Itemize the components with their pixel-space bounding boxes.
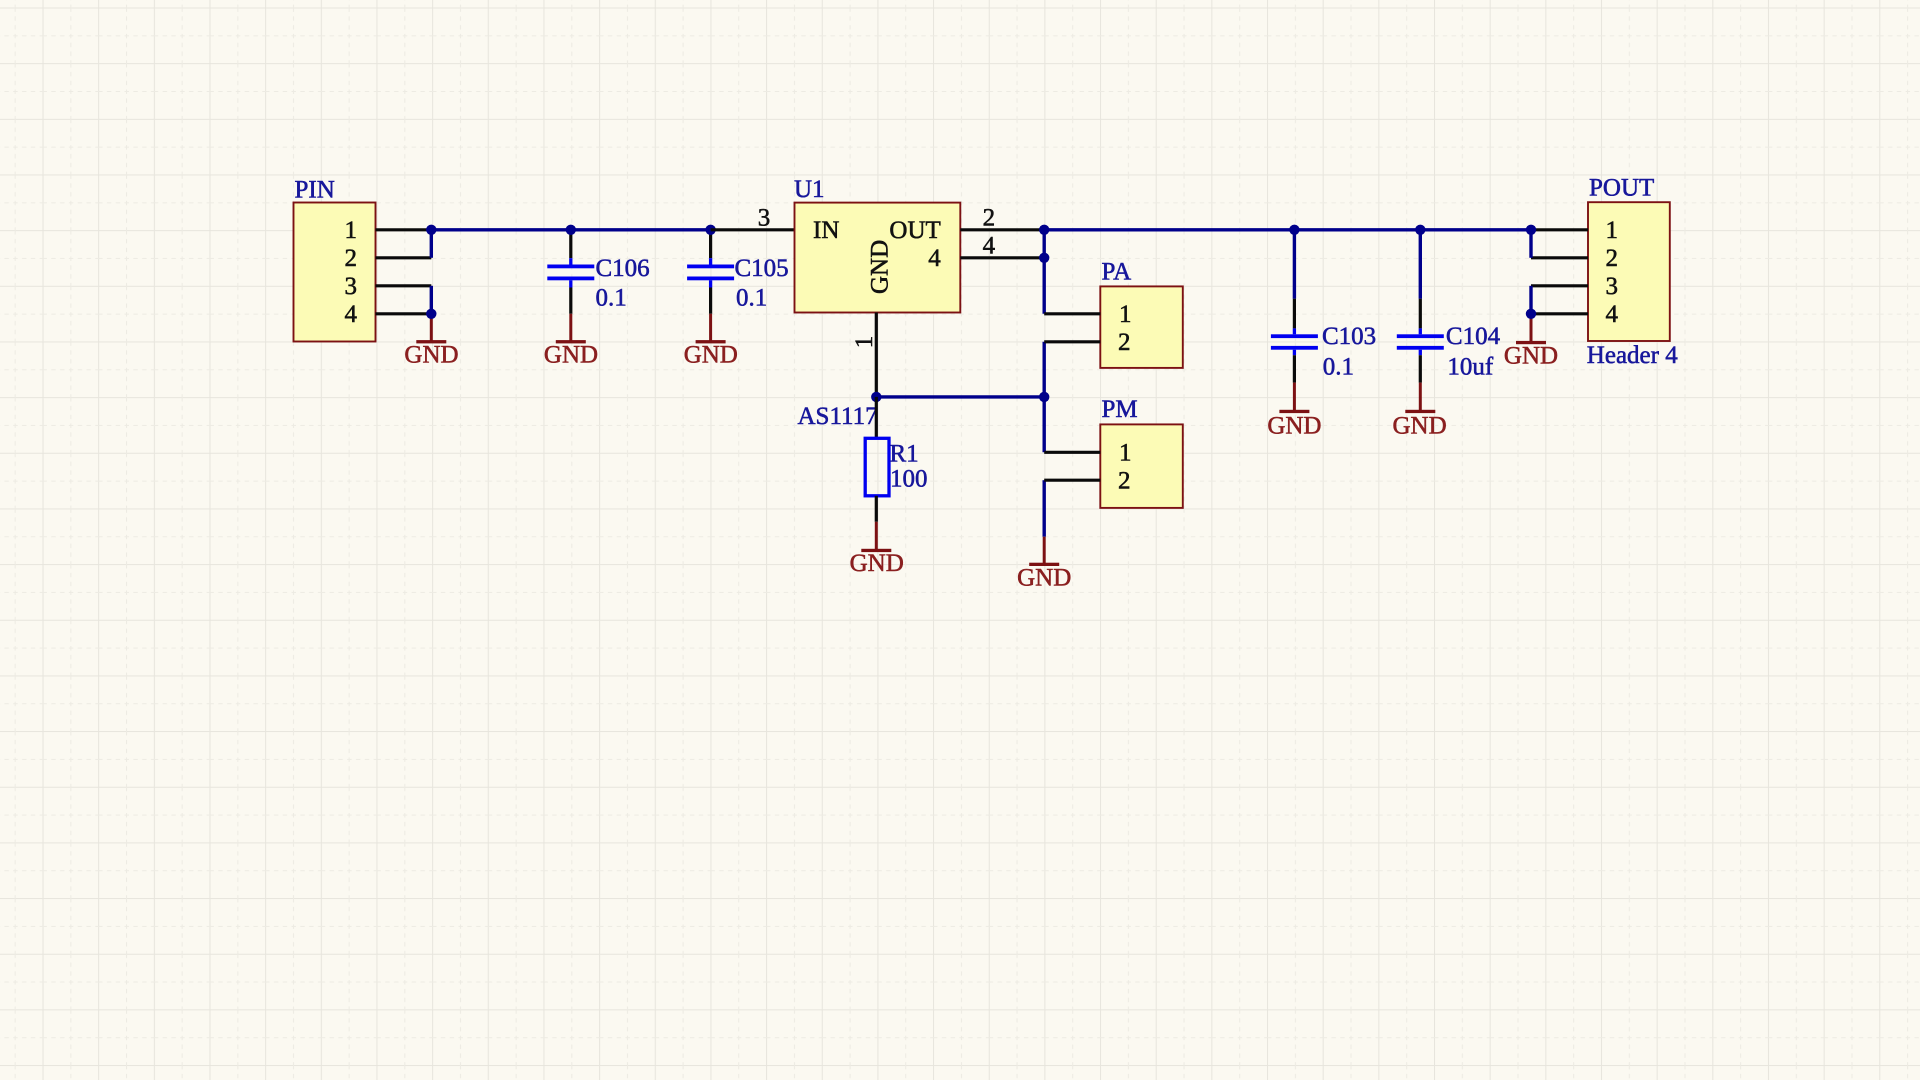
PIN pin 1 wire (376, 228, 432, 231)
junction at U1 pin 2 (1039, 225, 1049, 235)
svg-text:C103: C103 (1322, 323, 1376, 350)
svg-text:4: 4 (345, 301, 358, 328)
svg-text:1: 1 (1606, 217, 1619, 244)
POUT pin 1 wire (1531, 228, 1588, 231)
svg-text:GND: GND (684, 342, 738, 369)
svg-text:1: 1 (345, 217, 358, 244)
junction at PA column ADJ (1039, 392, 1049, 402)
svg-text:C105: C105 (735, 255, 789, 282)
capacitor C105 (687, 232, 734, 314)
regulator U1 (795, 203, 961, 313)
svg-text:POUT: POUT (1589, 175, 1654, 202)
ground symbol under PIN (416, 314, 446, 344)
svg-text:U1: U1 (794, 176, 825, 203)
svg-text:0.1: 0.1 (736, 285, 767, 312)
ground symbol under C106 (556, 314, 586, 344)
U1 pin 1 wire GND/ADJ (875, 313, 878, 397)
wire main net right section (1044, 228, 1531, 231)
svg-text:2: 2 (983, 204, 996, 231)
svg-text:2: 2 (1606, 245, 1619, 272)
svg-text:Header 4: Header 4 (1587, 342, 1678, 369)
svg-text:R1: R1 (890, 440, 919, 467)
svg-text:GND: GND (404, 342, 458, 369)
junction at PIN pin 1 (426, 225, 436, 235)
junction at C105 (705, 225, 715, 235)
svg-text:PM: PM (1102, 396, 1138, 423)
svg-text:GND: GND (1017, 564, 1071, 591)
junction at PIN pin 4 (426, 309, 436, 319)
svg-text:GND: GND (544, 342, 598, 369)
wire POUT pins 1-2 (1529, 230, 1532, 258)
connector PA (1100, 286, 1183, 368)
junction at C103 (1289, 225, 1299, 235)
connector PM (1100, 424, 1183, 508)
svg-text:PA: PA (1102, 258, 1132, 285)
svg-text:GND: GND (1504, 343, 1558, 370)
svg-text:3: 3 (1606, 273, 1619, 300)
svg-text:10uf: 10uf (1447, 354, 1494, 381)
capacitor C104 (1397, 230, 1444, 383)
svg-text:4: 4 (928, 245, 941, 272)
svg-text:C106: C106 (596, 255, 650, 282)
PM pin 2 wire (1044, 479, 1100, 482)
svg-text:0.1: 0.1 (596, 285, 627, 312)
ground symbol under PM column (1029, 537, 1059, 566)
svg-text:4: 4 (983, 232, 996, 259)
svg-text:0.1: 0.1 (1323, 354, 1354, 381)
junction at POUT pin 4 (1526, 309, 1536, 319)
U1 pin 2 wire OUT (960, 228, 1044, 231)
svg-text:GND: GND (850, 550, 904, 577)
junction at U1 pin 1 (871, 392, 881, 402)
svg-text:1: 1 (1119, 440, 1132, 467)
svg-text:GND: GND (867, 240, 894, 294)
svg-text:1: 1 (851, 336, 878, 349)
connector PIN (294, 203, 376, 342)
svg-text:IN: IN (813, 217, 839, 244)
wire PM pin 2 down to ground (1042, 480, 1045, 537)
ground symbol under R1 (861, 522, 891, 552)
wire PA pin 2 to PM pin 1 (1042, 342, 1045, 453)
junction at POUT pin 1 (1526, 225, 1536, 235)
wire ADJ net horizontal (876, 395, 1044, 398)
svg-text:PIN: PIN (295, 177, 335, 204)
svg-text:4: 4 (1606, 301, 1619, 328)
POUT pin 3 wire (1531, 284, 1588, 287)
svg-text:3: 3 (345, 273, 358, 300)
PIN pin 3 wire (376, 284, 432, 287)
POUT pin 4 wire (1531, 312, 1588, 315)
PA pin 1 wire (1044, 312, 1100, 315)
svg-text:2: 2 (1118, 329, 1131, 356)
svg-text:AS1117: AS1117 (798, 403, 878, 430)
ground symbol under C103 (1279, 383, 1309, 413)
op U1 pin 3 wire IN (711, 228, 795, 231)
junction at U1 pin 4 (1039, 253, 1049, 263)
capacitor C106 (547, 232, 594, 314)
PIN pin 4 wire (376, 312, 432, 315)
svg-text:GND: GND (1393, 412, 1447, 439)
svg-text:2: 2 (345, 245, 358, 272)
svg-text:100: 100 (890, 465, 928, 492)
svg-text:1: 1 (1119, 301, 1132, 328)
ground symbol under POUT (1516, 314, 1546, 344)
U1 pin 4 wire (960, 256, 1044, 259)
ground symbol under C104 (1405, 383, 1435, 413)
wire main net left section (431, 228, 712, 231)
svg-text:2: 2 (1118, 468, 1131, 495)
svg-text:GND: GND (1267, 412, 1321, 439)
junction at C104 (1415, 225, 1425, 235)
wire PIN pins 1-2 (430, 230, 433, 258)
wire OUT column to PA pin 1 (1042, 230, 1045, 314)
wire POUT pins 3-4 (1529, 286, 1532, 314)
svg-text:C104: C104 (1446, 323, 1501, 350)
PIN pin 2 wire (376, 256, 432, 259)
PA pin 2 wire (1044, 340, 1100, 343)
wire PIN pins 3-4 (430, 286, 433, 314)
svg-text:3: 3 (758, 204, 771, 231)
capacitor C103 (1271, 230, 1318, 383)
PM pin 1 wire (1044, 451, 1100, 454)
resistor R1 (865, 397, 889, 522)
ground symbol under C105 (696, 314, 726, 344)
POUT pin 2 wire (1531, 256, 1588, 259)
connector POUT (1588, 202, 1670, 341)
svg-text:OUT: OUT (889, 217, 940, 244)
junction at C106 (566, 225, 576, 235)
